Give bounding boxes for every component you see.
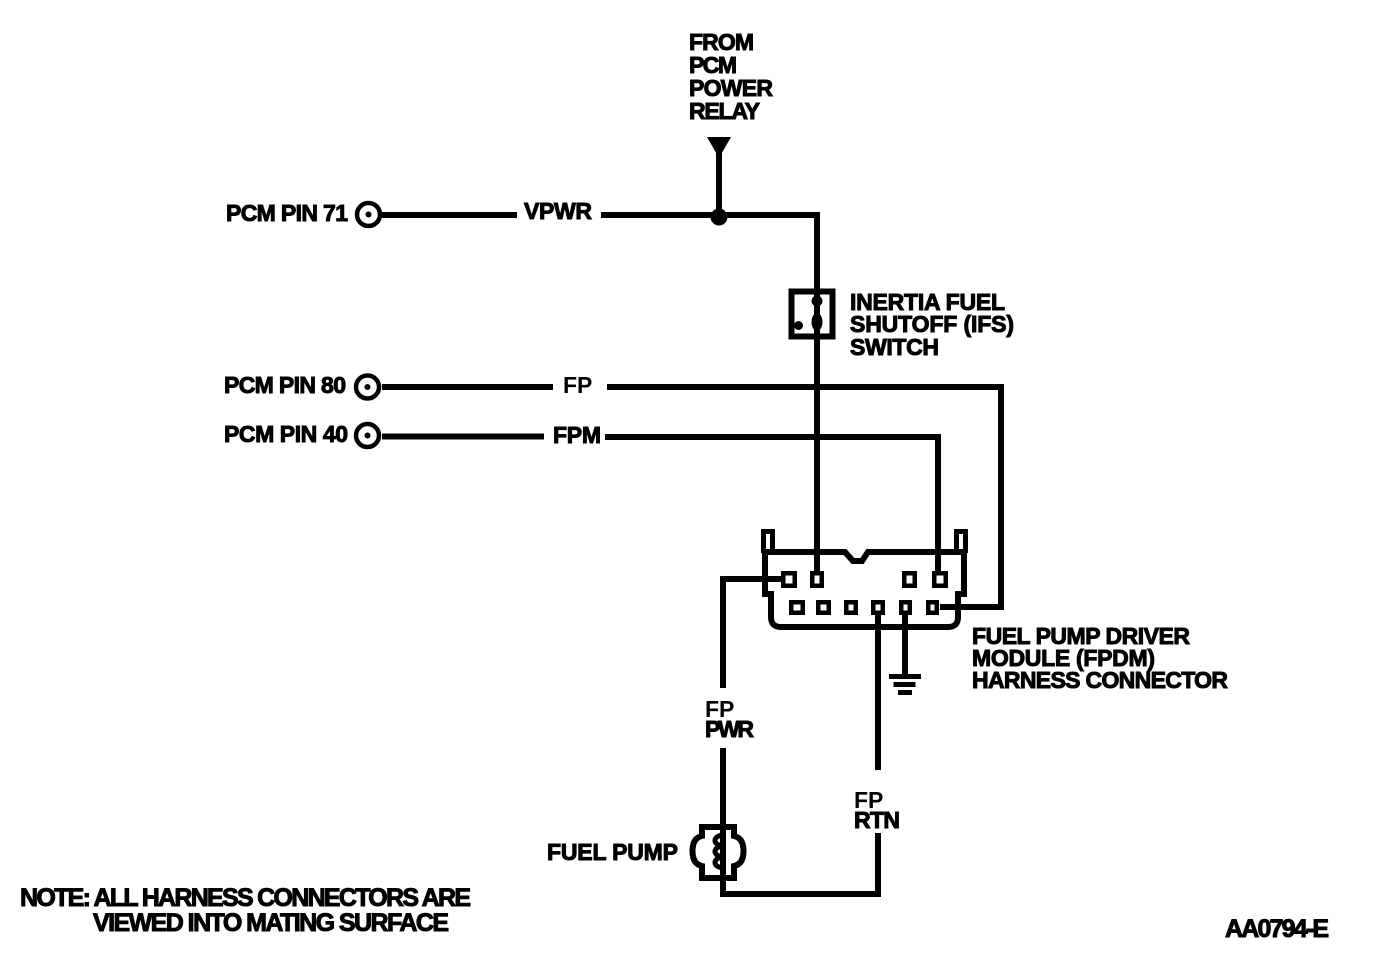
svg-text:HARNESS CONNECTOR: HARNESS CONNECTOR [972, 667, 1228, 693]
svg-text:SWITCH: SWITCH [850, 334, 939, 360]
svg-text:FUEL PUMP: FUEL PUMP [547, 839, 678, 865]
svg-text:PCM PIN 71: PCM PIN 71 [226, 200, 348, 226]
svg-text:PWR: PWR [705, 716, 754, 742]
svg-text:RELAY: RELAY [689, 98, 760, 124]
svg-text:FPM: FPM [553, 422, 601, 448]
svg-text:PCM PIN 80: PCM PIN 80 [224, 372, 346, 398]
svg-text:NOTE: ALL HARNESS CONNECTORS A: NOTE: ALL HARNESS CONNECTORS ARE [20, 884, 471, 912]
svg-text:VIEWED INTO MATING SURFACE: VIEWED INTO MATING SURFACE [93, 909, 449, 937]
svg-text:AA0794-E: AA0794-E [1225, 915, 1329, 943]
svg-text:RTN: RTN [854, 807, 900, 833]
svg-text:VPWR: VPWR [524, 198, 592, 224]
svg-text:FP: FP [563, 372, 592, 398]
svg-text:PCM PIN 40: PCM PIN 40 [224, 421, 348, 447]
